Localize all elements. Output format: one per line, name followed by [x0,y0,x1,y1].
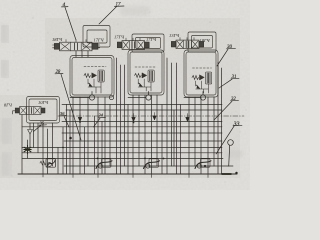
svg-text:17ГЧ: 17ГЧ [94,38,105,43]
wire verticals between M2 M3 [167,58,181,174]
cluster M1 drain arrow [89,83,93,87]
cluster M3 check valve [200,75,205,80]
callout 28 [55,70,81,140]
container M2 outer [128,50,164,95]
container M3 outer [184,50,218,97]
pipe stub M0 left [13,111,15,114]
cluster M1 filter/orifice [98,70,104,82]
valve block M2 head inner [136,38,161,49]
bottom cluster 2 [144,159,160,169]
callout 35 [34,121,47,132]
callout 17 [99,3,124,24]
wire verticals left group [22,115,63,174]
svg-text:13ГЧ: 13ГЧ [169,33,180,38]
cluster M1 check valve [92,73,97,78]
junction dots [62,121,238,174]
directional valve 8ГЧ/10ГЧ [15,107,45,115]
arrow A1 [78,114,82,122]
scan flecks [8,12,247,184]
valve block M3 head outer [188,32,216,52]
directional valve M2 [117,38,149,49]
callout 36 [60,111,70,127]
chain line (axis) [58,115,244,117]
check valve below M0 [28,123,33,147]
cluster M1 spring [84,74,91,78]
cluster M2 check valve [142,73,147,78]
paper background [0,0,250,190]
wire stubs below bottom bus [43,174,208,178]
M3 port circle [184,92,206,101]
svg-text:8ГЧ: 8ГЧ [4,103,13,108]
container M1 outer [70,56,114,98]
wire bus horizontals [18,105,237,175]
svg-text:17ГЧ: 17ГЧ [114,35,125,40]
arrow A2 [132,114,136,122]
cluster M1 link lines [88,79,101,93]
paper noise [0,0,250,190]
cluster M3 spring [192,76,199,80]
bottom cluster 3 [195,159,211,169]
cluster M1 dashed line [84,66,106,68]
svg-text:28: 28 [56,70,61,75]
cluster M2 spring [135,74,142,78]
M1 port circle [70,92,114,101]
valve block M3 head inner [192,36,213,49]
star symbol (pump) [24,145,31,153]
callout 32 [214,97,239,120]
cluster M3 link lines [196,81,209,93]
container M0 outer [27,97,60,124]
bus end dark mark [222,173,231,175]
pipes valve M1 to container [76,51,88,57]
callout 31 [219,75,239,88]
callout 30 [217,45,236,66]
bottom cluster left [40,159,56,167]
container M2 inner [130,52,162,93]
cluster M3 drain arrow [196,85,200,89]
cluster M2 dashed line [135,66,155,68]
wire verticals M3 group [189,97,214,174]
directional valve M3 [171,38,203,49]
cluster M2 drain arrow [139,83,143,87]
cluster M3 dashed line [193,67,212,69]
callout 4 [62,1,77,40]
wire verticals between M1 M2 [117,58,129,174]
wire verticals right group [218,62,222,174]
container M3 inner [186,52,216,95]
paper tone patches [0,0,250,190]
arrow A2b [153,113,156,121]
directional valve 18ГЧ/17ГЧ M1 [54,40,98,51]
svg-text:10ГЧ: 10ГЧ [38,100,49,105]
wire verticals M2 group [133,95,162,174]
valve block M2 head outer [132,34,164,52]
callout 33 [216,122,242,155]
container M0 inner [29,99,57,121]
wire verticals M1 group [67,97,111,174]
M2 port circle [128,92,151,101]
cluster M2 filter/orifice [148,70,154,82]
cluster M2 link lines [138,79,151,91]
gauge circle [228,140,234,167]
cluster M3 filter/orifice [206,72,212,84]
arrow A3 [186,114,190,122]
scan smudges [1,6,243,175]
valve block M1 head inner [87,30,107,43]
valve cap stubs M1 [53,45,100,48]
bottom cluster 1 [96,159,112,169]
svg-text:18ГЧ: 18ГЧ [52,37,63,42]
container M1 inner [72,58,112,96]
valve block M1 head outer [83,26,110,48]
callout 34 [94,113,106,128]
